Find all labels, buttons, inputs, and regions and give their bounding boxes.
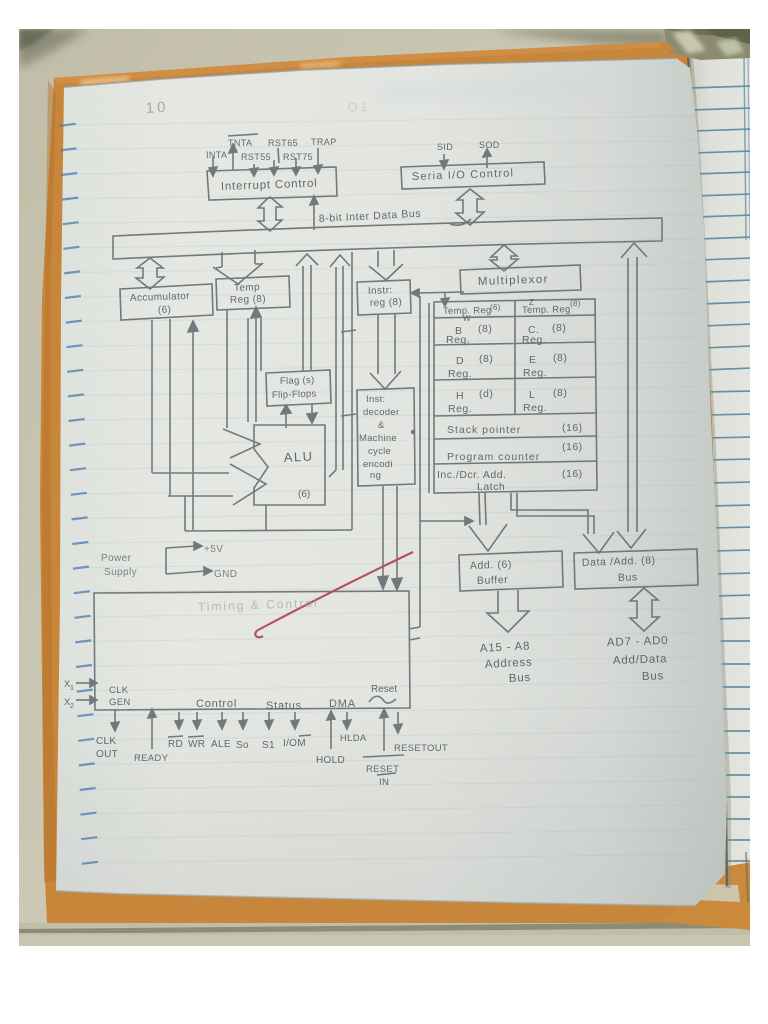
svg-text:Supply: Supply [104,567,137,578]
svg-text:Multiplexor: Multiplexor [478,274,549,288]
svg-text:L: L [529,389,535,401]
svg-text:TRAP: TRAP [311,137,337,147]
svg-text:CLK: CLK [109,685,129,696]
svg-text:AD7 - AD0: AD7 - AD0 [607,635,669,649]
svg-text:(8): (8) [552,322,566,334]
svg-text:ALU: ALU [283,448,314,465]
svg-text:TNTA: TNTA [228,138,252,148]
svg-text:RD: RD [168,739,183,750]
svg-text:Add. (6): Add. (6) [470,559,513,572]
svg-text:HLDA: HLDA [340,733,367,744]
svg-text:HOLD: HOLD [316,755,345,766]
svg-text:decoder: decoder [363,407,399,418]
svg-text:reg (8): reg (8) [370,297,403,309]
svg-text:(8): (8) [570,299,581,308]
svg-text:Flip-Flops: Flip-Flops [272,388,317,401]
svg-text:cycle: cycle [368,446,391,457]
svg-text:Bus: Bus [642,670,665,683]
svg-text:Reg.: Reg. [523,367,547,379]
svg-text:GND: GND [214,569,237,580]
svg-text:Flag (s): Flag (s) [280,375,315,387]
svg-text:ALE: ALE [211,739,231,750]
svg-text:&: & [378,420,385,431]
svg-text:Z: Z [529,298,534,307]
svg-text:Buffer: Buffer [477,574,509,587]
svg-text:Accumulator: Accumulator [130,291,191,304]
svg-text:WR: WR [188,739,205,750]
svg-text:(8): (8) [553,352,567,364]
svg-text:RESET: RESET [366,764,399,775]
svg-text:Control: Control [196,698,237,710]
svg-text:Power: Power [101,553,132,564]
svg-text:CLK: CLK [96,736,116,747]
svg-text:2: 2 [70,703,74,710]
svg-text:Program counter: Program counter [447,451,540,463]
svg-text:(8): (8) [478,323,492,335]
svg-text:(16): (16) [562,468,583,480]
svg-text:So: So [236,740,249,751]
svg-text:Reg.: Reg. [446,334,470,346]
svg-text:I/OM: I/OM [283,738,306,749]
svg-text:SOD: SOD [479,140,500,150]
svg-text:(6): (6) [298,489,310,500]
svg-text:O1: O1 [347,99,369,115]
svg-text:Inst:: Inst: [366,394,385,405]
svg-text:ng: ng [370,470,381,481]
svg-text:Latch: Latch [477,481,505,493]
svg-text:Stack pointer: Stack pointer [447,424,521,436]
svg-text:Status: Status [266,700,302,712]
svg-text:Bus: Bus [509,672,532,685]
svg-text:Instr:: Instr: [368,285,393,297]
svg-text:S1: S1 [262,740,275,751]
svg-text:1: 1 [70,685,74,692]
svg-text:+5V: +5V [204,544,223,555]
svg-text:Reg.: Reg. [448,368,472,380]
svg-text:INTA: INTA [206,150,227,160]
svg-text:Add/Data: Add/Data [613,653,668,667]
svg-text:RST75: RST75 [283,152,313,162]
svg-text:(6): (6) [490,303,501,312]
svg-text:Machine: Machine [359,433,397,444]
svg-text:RST55: RST55 [241,152,271,162]
svg-text:H: H [456,390,464,402]
svg-text:RST65: RST65 [268,138,298,148]
svg-text:W: W [463,314,471,323]
svg-text:Address: Address [485,657,533,671]
svg-text:(6): (6) [158,305,172,316]
svg-text:RESETOUT: RESETOUT [394,743,448,754]
svg-text:Inc./Dcr. Add.: Inc./Dcr. Add. [437,469,506,481]
svg-text:Reset: Reset [371,684,397,695]
svg-text:Temp: Temp [234,282,260,294]
svg-text:10: 10 [145,99,169,117]
svg-text:Reg (8): Reg (8) [230,294,267,306]
svg-text:(d): (d) [479,388,493,400]
svg-text:IN: IN [379,777,389,788]
svg-text:OUT: OUT [96,749,118,760]
svg-text:(16): (16) [562,441,583,453]
svg-text:D: D [456,355,464,367]
svg-text:GEN: GEN [109,697,131,708]
svg-text:E: E [529,354,537,366]
svg-text:(16): (16) [562,422,583,434]
svg-text:Reg.: Reg. [522,334,546,346]
svg-text:READY: READY [134,753,169,764]
svg-text:Reg.: Reg. [448,403,472,415]
svg-text:encodi: encodi [363,459,393,470]
svg-text:SID: SID [437,142,453,152]
svg-text:DMA: DMA [329,698,356,710]
svg-text:(8): (8) [479,353,493,365]
svg-text:Reg.: Reg. [523,402,547,414]
svg-text:(8): (8) [553,387,567,399]
svg-text:Bus: Bus [618,571,638,584]
